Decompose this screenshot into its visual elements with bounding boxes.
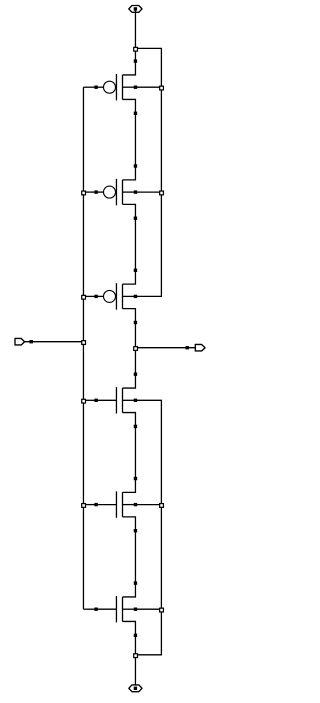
wire well bus M2 to M3 bulk pin: [135, 192, 161, 296]
wire gate bus to M5 gate: [83, 504, 96, 506]
wire M5 bulk pin to bulk bus: [135, 504, 161, 506]
wire GND node to ground export: [134, 655, 136, 689]
ground export GND: [129, 685, 142, 692]
node M6 substrate tap junction: [159, 608, 164, 613]
wire gate bus to M4 gate: [83, 399, 96, 401]
wire VDD export to VDD node: [134, 9, 136, 49]
wire substrate bus M5 to M6: [160, 505, 162, 610]
node VDD junction: [133, 47, 138, 52]
wire M3 drain to output node: [134, 323, 136, 348]
wire output node to output port: [135, 347, 195, 349]
power export VDD: [129, 6, 142, 13]
wire M2 bulk pin to bulk bus: [135, 191, 161, 193]
pmos transistor M3: [94, 269, 137, 325]
node M1 well tap junction: [159, 86, 164, 91]
wire well bus M1 to M2: [160, 87, 162, 192]
wire M6 drain to GND node: [134, 635, 136, 655]
wire gate bus to M6 gate: [83, 608, 96, 610]
wire gate bus: [82, 87, 84, 609]
wire M1 drain to M2 source: [134, 113, 136, 166]
node output junction: [133, 346, 138, 351]
wire VDD node to PMOS well bus: [135, 48, 161, 87]
wire M4 bulk pin to substrate bus: [135, 400, 161, 504]
wire M1 bulk pin to bulk bus: [135, 86, 161, 88]
wire substrate bus to GND node: [135, 609, 161, 655]
node M2 gate junction: [81, 190, 86, 195]
wire M5 drain to M6 source: [134, 531, 136, 583]
node M5 gate junction: [81, 503, 86, 508]
wire gate bus to M2 gate: [83, 191, 96, 193]
wire M2 drain to M3 source: [134, 218, 136, 270]
node GND junction: [133, 653, 138, 658]
wire M6 bulk pin to bulk bus: [135, 608, 161, 610]
wire VDD node to M1 source: [134, 48, 136, 61]
nmos transistor M6: [94, 581, 137, 637]
node M5 substrate tap junction: [159, 503, 164, 508]
nmos transistor M5: [94, 477, 137, 533]
input port: [15, 338, 33, 345]
wire input port to gate bus: [25, 341, 84, 343]
output port: [186, 344, 206, 351]
node M3 gate junction: [81, 295, 86, 300]
wire gate bus to M1 gate: [83, 86, 96, 88]
pmos transistor M2: [94, 164, 137, 220]
wire output node to M4 source: [134, 348, 136, 375]
node M2 well tap junction: [159, 190, 164, 195]
node input junction: [81, 340, 86, 345]
pmos transistor M1: [94, 59, 137, 115]
node M4 gate junction: [81, 399, 86, 404]
wire M4 drain to M5 source: [134, 426, 136, 478]
nmos transistor M4: [94, 373, 137, 429]
wire gate bus to M3 gate: [83, 295, 96, 297]
